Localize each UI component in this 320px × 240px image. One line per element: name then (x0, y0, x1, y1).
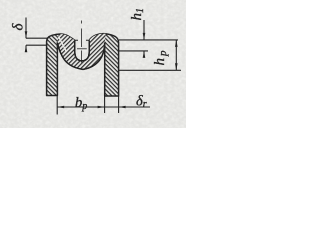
metal cross-section body (hatched): left bar + left hump + U wall + right hump + right bar (47, 34, 119, 96)
extension line top (rim level) (119, 39, 178, 41)
delta extension lines (26, 38, 48, 45)
bottom extension lines right bar (105, 96, 119, 113)
extension line mid (119, 50, 148, 52)
hp dimension line (175, 40, 177, 70)
delta-t right arrow (119, 106, 126, 109)
cavity outline (75, 40, 90, 61)
smile outer arc outline (57, 43, 104, 70)
U-band region with / hatch (57, 34, 105, 70)
centerline of rib (80, 21, 82, 63)
centerline cross tick (77, 48, 87, 50)
delta dimension: vertical line (25, 18, 27, 52)
cavity rim ticks (75, 39, 90, 41)
bp arrows (57, 106, 64, 109)
bp / delta-t dimension line (57, 106, 150, 108)
bottom extension line from left bar inner edge (56, 96, 58, 115)
h1 arrows (143, 33, 146, 40)
delta arrows (25, 31, 28, 38)
white seam in left dome (59, 37, 67, 53)
h1 dimension line (143, 20, 145, 56)
extension line bottom (bar bottom side) (119, 69, 181, 71)
hp arrows (175, 40, 178, 47)
